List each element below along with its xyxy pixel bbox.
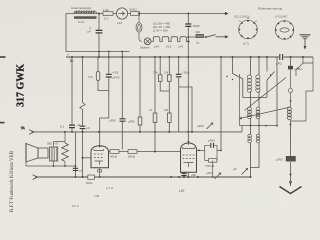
svg-text:317 GWK: 317 GWK xyxy=(15,64,27,107)
svg-text:L42: L42 xyxy=(117,21,122,25)
resistor R10 xyxy=(205,159,217,168)
wire V2 x=99 xyxy=(98,14,100,58)
svg-text:µF50: µF50 xyxy=(113,76,120,80)
wire V x=169.3 xyxy=(168,57,170,132)
output transformer TR1 winding b (zigzag) xyxy=(62,143,69,162)
speaker LS1 xyxy=(26,143,48,162)
capacitor C8 on x=72 xyxy=(60,56,81,132)
tube socket U2 xyxy=(275,21,294,40)
resistor R12 hatched xyxy=(276,156,296,161)
tube socket heading xyxy=(258,7,283,11)
earth arrow bottom xyxy=(280,181,302,194)
output transformer TR1 winding a xyxy=(50,147,58,161)
svg-text:0,1: 0,1 xyxy=(104,17,109,21)
svg-text:L57: L57 xyxy=(179,189,185,193)
capacitor C11 xyxy=(73,168,83,172)
tube V3 bottom wire + capacitor C6 xyxy=(181,172,196,177)
wire H1 end arrow xyxy=(225,12,228,14)
tube V2 internals xyxy=(94,144,104,165)
wire V x=75.5 xyxy=(75,132,77,177)
oscillator coil L5b xyxy=(251,126,260,168)
heater label LL3 xyxy=(178,45,183,49)
svg-text:Röhrenanordnung: Röhrenanordnung xyxy=(258,7,283,11)
svg-text:Ω 54 = 660: Ω 54 = 660 xyxy=(153,29,168,33)
resistor R3 xyxy=(195,30,204,45)
svg-text:0,1: 0,1 xyxy=(60,125,65,129)
edge tick top xyxy=(0,56,6,58)
tube V3 dome xyxy=(181,143,197,172)
title text B.F.T Funkwerk Koelleda VEB xyxy=(10,150,15,212)
svg-text:µF: µF xyxy=(88,30,92,34)
bottom small label xyxy=(72,204,79,208)
wire H2 right of humps xyxy=(188,36,224,38)
node H4 junctions xyxy=(71,131,193,133)
node H1-C1 junction xyxy=(98,13,100,15)
cathode resistor R11 xyxy=(86,175,94,185)
svg-text:µF50: µF50 xyxy=(206,171,213,175)
resistor R4 xyxy=(88,72,100,81)
trimmer arrow 2 xyxy=(206,171,221,179)
capacitor C7 xyxy=(208,139,215,148)
svg-text:50kΩ: 50kΩ xyxy=(130,8,138,12)
svg-text:430: 430 xyxy=(195,30,200,34)
bottom bus H5 xyxy=(35,176,251,178)
trimmer oval on x=290.5 xyxy=(289,69,293,107)
wire V x=277 xyxy=(276,57,278,127)
svg-text:µF: µF xyxy=(87,126,91,130)
label under R11 xyxy=(106,186,113,190)
phono jack J1 xyxy=(21,126,34,134)
anode line y=151.5 xyxy=(109,151,181,153)
heater label +12 xyxy=(166,45,172,49)
svg-text:(30µ): (30µ) xyxy=(183,71,190,75)
capacitor C10 dark on x=290.5 xyxy=(288,57,303,71)
wire top bus H1 xyxy=(66,13,225,15)
resistor R5 xyxy=(149,108,157,123)
svg-text:µ 7.3: µ 7.3 xyxy=(106,186,113,190)
trimmer arrow 3 xyxy=(233,167,248,175)
switch S1 blade xyxy=(205,35,215,38)
+B marker xyxy=(67,53,74,63)
svg-text:70: 70 xyxy=(149,108,153,112)
socket U2 label xyxy=(275,15,287,19)
capacitor C4 xyxy=(109,119,126,123)
antenna coil L1 label text xyxy=(71,6,92,10)
tube V2 bottom wire xyxy=(98,168,102,178)
right loop wires xyxy=(291,57,314,121)
wire left vertical V1 xyxy=(65,14,67,52)
oscillator coil L3a xyxy=(247,57,251,107)
svg-text:4,05: 4,05 xyxy=(113,71,119,75)
svg-text:L43: L43 xyxy=(178,45,183,49)
capacitor C5 xyxy=(176,71,190,77)
node H1 fuse junction xyxy=(138,13,140,15)
wire H2 end arrow xyxy=(225,36,228,38)
capacitor C2 xyxy=(185,24,200,28)
resistor R1 xyxy=(103,8,113,21)
resistor R13 xyxy=(128,117,142,125)
right coil bus xyxy=(240,125,278,132)
tube V1 label xyxy=(117,21,122,25)
svg-text:TRK41: TRK41 xyxy=(205,164,215,168)
svg-text:T42: T42 xyxy=(94,194,100,198)
svg-text:µF50: µF50 xyxy=(197,124,204,128)
bus H4 xyxy=(32,131,243,133)
antenna coil L1 value label xyxy=(78,20,85,24)
svg-text:µF: µF xyxy=(77,123,81,127)
svg-text:(CT): (CT) xyxy=(243,42,249,46)
tube socket U1 xyxy=(239,17,258,39)
title text 317 GWK xyxy=(15,64,27,107)
svg-text:µF50: µF50 xyxy=(276,158,283,162)
transformer wires xyxy=(54,131,66,166)
IF coil L6 xyxy=(288,107,292,140)
oscillator coil L5a xyxy=(248,126,252,177)
tube V2 dome xyxy=(91,146,109,168)
switch blade long diagonal D2 xyxy=(240,107,291,119)
flex kink on x=82.5 xyxy=(80,103,85,110)
heater label L+3 xyxy=(154,45,159,49)
switch S4 right xyxy=(296,57,314,76)
tube V2 grid left wire xyxy=(82,157,92,159)
svg-text:1µ: 1µ xyxy=(196,41,200,45)
wire V x=239.5 xyxy=(239,74,241,126)
transformer top label xyxy=(47,142,58,146)
main bus H3 xyxy=(66,56,313,58)
svg-text:Antennenkoppl.: Antennenkoppl. xyxy=(71,6,92,10)
capacitor C12 on x=82.5 xyxy=(80,126,91,130)
svg-text:50kΩ: 50kΩ xyxy=(110,155,118,159)
value table line 1 xyxy=(153,22,171,26)
wire loop to bus xyxy=(212,160,214,178)
svg-text:6 F 2: 6 F 2 xyxy=(72,204,79,208)
earth symbol top right xyxy=(300,35,311,50)
speaker bottom wire xyxy=(25,162,27,166)
svg-text:µF50: µF50 xyxy=(128,120,135,124)
node H2b junctions xyxy=(98,51,123,53)
wire V x=160.2 xyxy=(160,57,169,91)
wire V x=140 xyxy=(139,57,141,132)
resistor R7 xyxy=(164,71,171,82)
node H1 C2 junction xyxy=(187,13,189,15)
svg-text:500k: 500k xyxy=(86,181,93,185)
node H3 junctions xyxy=(82,56,305,58)
svg-text:50kΩ: 50kΩ xyxy=(128,155,136,159)
wire V x=108.8 xyxy=(100,52,109,145)
wire H x=248-267 y=97.4 xyxy=(249,96,268,98)
tube V3 top wire xyxy=(187,132,189,141)
antenna coil L1 core bar xyxy=(74,16,97,19)
wire V x=178.7 xyxy=(179,57,192,132)
wire V x=99 lower xyxy=(98,52,109,91)
svg-text:B.F.T Funkwerk Kölleda VEB: B.F.T Funkwerk Kölleda VEB xyxy=(10,150,15,212)
wire V x=188.3 xyxy=(187,14,189,132)
edge tick bottom xyxy=(0,122,5,124)
svg-text:TA: TA xyxy=(21,126,25,130)
socket U1 label xyxy=(234,15,250,19)
svg-text:UY11/AZ: UY11/AZ xyxy=(275,15,287,19)
svg-text:580 7+9: 580 7+9 xyxy=(47,142,58,146)
switch blade long diagonal D1 xyxy=(245,78,287,111)
lamp E1 xyxy=(144,38,151,45)
oscillator coil L3b xyxy=(256,57,260,107)
svg-text:L43: L43 xyxy=(154,45,159,49)
wire V x=221 xyxy=(217,57,222,151)
svg-text:70k: 70k xyxy=(153,71,158,75)
wire V x=122.3 xyxy=(121,52,123,150)
svg-text:µF50: µF50 xyxy=(109,119,116,123)
wire V x=82.5 xyxy=(82,57,84,177)
wire H6 xyxy=(26,165,76,167)
socket U1 bottom label xyxy=(243,42,249,46)
svg-text:µF: µF xyxy=(80,169,84,173)
tube V2 label xyxy=(94,194,100,198)
value table line 3 xyxy=(153,29,168,33)
antenna coil L1 windings xyxy=(74,10,97,13)
resistor R9 xyxy=(128,150,137,159)
svg-text:1,5k: 1,5k xyxy=(103,8,109,12)
svg-text:µF: µF xyxy=(233,167,237,171)
wire V x=290.5 to earth xyxy=(290,140,292,186)
heater wire humps L2 xyxy=(151,37,190,42)
wire V x=155 xyxy=(154,57,156,152)
resistor R8 xyxy=(110,150,119,159)
tube V1 (diode circle) xyxy=(116,8,127,19)
svg-text:+: + xyxy=(67,53,69,57)
svg-text:Skalenl.: Skalenl. xyxy=(140,46,151,50)
oscillator coil L4a xyxy=(248,107,252,126)
svg-text:µF50: µF50 xyxy=(208,139,215,143)
node H5 junctions xyxy=(75,176,252,178)
node H2 x=187 junction xyxy=(187,36,189,43)
short bus H2b xyxy=(66,51,130,53)
svg-text:K12: K12 xyxy=(166,45,172,49)
trimmer arrow 1 xyxy=(197,123,213,129)
capacitor C3 xyxy=(106,71,120,80)
tube V3 label xyxy=(179,189,185,193)
svg-text:µ50: µ50 xyxy=(191,173,196,177)
wire V x=267 + switch S3 xyxy=(267,57,275,97)
H5 left arrow xyxy=(33,175,38,180)
fuse holder F1 xyxy=(136,14,142,42)
oscillator coil L4b xyxy=(256,107,260,126)
svg-text:K.F.L: K.F.L xyxy=(78,20,85,24)
svg-text:1M: 1M xyxy=(164,108,169,112)
wire V x=232.5 + switch S2 xyxy=(226,57,248,97)
capacitor C1 xyxy=(88,26,103,34)
svg-text:17k: 17k xyxy=(88,75,93,79)
resistor R2 xyxy=(130,8,140,16)
tube V3 internals xyxy=(183,141,195,167)
svg-text:5000: 5000 xyxy=(193,24,200,28)
svg-text:1M: 1M xyxy=(164,71,169,75)
resistor R6 xyxy=(153,71,162,82)
lamp E1 label xyxy=(140,46,151,50)
output loop rect xyxy=(197,145,218,160)
series capacitor C9 in H3 xyxy=(276,54,283,66)
resistor R14 xyxy=(164,108,171,122)
value table line 2 xyxy=(153,25,171,29)
